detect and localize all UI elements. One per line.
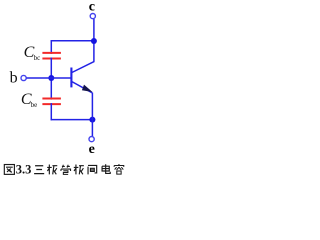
terminal e open circle <box>89 137 94 142</box>
terminal b open circle <box>21 75 26 80</box>
transistor Q1 emitter arrowhead <box>82 85 93 92</box>
node: junction dot on base wire <box>48 75 54 81</box>
terminal c open circle <box>90 14 95 19</box>
svg-text:b: b <box>10 70 18 87</box>
svg-text:3.3: 3.3 <box>16 163 32 177</box>
caption 容 <box>114 164 124 174</box>
caption 间 <box>88 165 97 174</box>
caption 三 <box>34 166 44 174</box>
transistor Q1 collector diagonal <box>72 61 94 72</box>
capacitor Cbc top plate <box>42 52 61 54</box>
wire: vertical from Cbc bottom plate through base junction to Cbe top plate <box>50 58 52 100</box>
caption 图 <box>4 165 14 175</box>
transistor Q1 emitter diagonal <box>72 82 92 93</box>
wire: emitter vertical from arrow to terminal e <box>91 93 93 137</box>
svg-text:bc: bc <box>34 54 41 62</box>
svg-text:e: e <box>89 142 95 157</box>
caption 电 <box>102 164 110 173</box>
wire: bottom horizontal from corner to emitter junction <box>51 119 93 121</box>
capacitor Cbe bottom plate <box>42 103 61 105</box>
svg-text:c: c <box>89 0 95 15</box>
capacitor Cbc bottom plate <box>42 58 61 60</box>
wire: top horizontal from Cbc corner to collector junction <box>51 40 95 42</box>
caption 极 <box>47 165 57 175</box>
capacitor Cbe top plate <box>42 98 61 100</box>
wire: collector vertical from terminal c down to bend <box>93 19 95 62</box>
node: junction dot at emitter rail <box>89 117 95 123</box>
caption 管 <box>61 165 71 175</box>
caption 极 (second) <box>74 165 84 175</box>
node: junction dot at collector rail <box>91 38 97 44</box>
wire: base horizontal from terminal b to transistor base bar <box>26 77 70 79</box>
wire: vertical from Cbe bottom plate to bottom corner <box>50 103 52 120</box>
transistor Q1 base bar <box>70 68 72 88</box>
wire: vertical from top corner down to Cbc top plate <box>50 40 52 54</box>
svg-text:be: be <box>31 101 38 109</box>
